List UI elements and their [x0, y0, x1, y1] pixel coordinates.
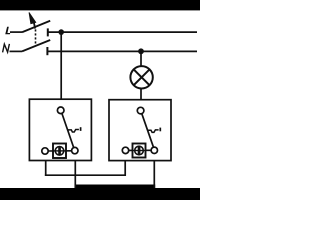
S2 squiggle end tick	[159, 128, 161, 132]
node L label	[5, 27, 10, 35]
wire S1 left terminal drop	[45, 161, 47, 177]
contact tick L	[47, 28, 49, 36]
S2 pivot circle	[137, 107, 144, 114]
node A junction dot on L bus	[58, 29, 64, 35]
S1 glow lamp electrodes	[58, 147, 61, 155]
S1 squiggle end tick	[80, 127, 82, 131]
wire S2 right terminal drop	[153, 161, 155, 189]
wire from node A down to left switch box	[60, 32, 62, 99]
switch box S1 outline	[29, 99, 91, 160]
wire S2 left terminal drop	[124, 161, 126, 177]
lamp E1	[130, 66, 152, 88]
S1 pivot circle	[57, 107, 64, 114]
S2 glow lamp feed stubs	[133, 150, 146, 152]
S1 terminal link wire	[48, 150, 71, 152]
wire L bus	[48, 31, 197, 33]
S2 glow lamp electrodes	[138, 147, 141, 155]
S1 glow lamp box	[53, 144, 66, 159]
wire L feed segment	[10, 31, 22, 33]
switch blade N pole	[22, 40, 50, 51]
node N label	[3, 44, 10, 53]
wire W2 (thick, merged with bottom band)	[75, 185, 156, 190]
contact tick N	[46, 47, 48, 55]
S2 lever	[142, 114, 154, 148]
wire from lamp down to right switch box	[140, 89, 142, 101]
switch blade L pole	[22, 21, 50, 32]
S1 lever	[62, 113, 74, 147]
S1 spring squiggle	[68, 130, 79, 133]
mechanical link dashed	[35, 29, 37, 44]
wire S1 right terminal drop	[74, 161, 76, 189]
S1 glow lamp feed stubs	[53, 150, 66, 152]
S1 right terminal	[72, 147, 78, 153]
S2 left terminal	[122, 147, 128, 153]
S2 terminal link wire	[129, 149, 151, 151]
wire W1 cross-connection	[45, 174, 126, 176]
S1 left terminal	[42, 148, 48, 154]
switch box S2 outline	[109, 100, 171, 161]
S1 glow lamp circle	[55, 147, 64, 156]
S2 glow lamp box	[133, 144, 146, 158]
wire N bus	[47, 50, 197, 52]
S2 glow lamp circle	[135, 146, 144, 155]
node B junction dot on N bus	[138, 48, 144, 54]
S2 spring squiggle	[147, 130, 158, 133]
wire from node B down to lamp	[140, 51, 142, 66]
top black band	[0, 0, 200, 10]
bottom black band	[0, 188, 200, 200]
wire N feed segment	[10, 50, 23, 52]
actuation arrow shaft	[34, 23, 35, 29]
S2 right terminal	[151, 147, 157, 153]
actuation arrow head	[29, 12, 36, 23]
